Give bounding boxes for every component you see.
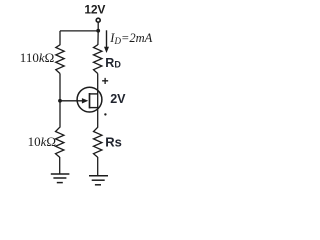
label 2V: [110, 92, 126, 106]
svg-text:110kΩ: 110kΩ: [20, 50, 54, 65]
resistor RD: [94, 45, 102, 74]
resistor 110k: [56, 45, 64, 74]
transistor Q1 body circle: [77, 87, 102, 112]
label 12V supply: [84, 3, 105, 17]
svg-text:12V: 12V: [84, 3, 105, 17]
wire left rail middle: [59, 74, 61, 128]
value label 10kOhm: [28, 134, 56, 149]
label minus dot: [104, 113, 106, 115]
value label 110kOhm: [20, 50, 54, 65]
transistor Q1 gate arrowhead: [82, 98, 88, 103]
wire left rail top: [59, 31, 61, 45]
label ID=2mA: [109, 31, 152, 46]
wire gate: [60, 100, 83, 102]
wire right rail from junction to RD: [97, 31, 99, 45]
ground right: [89, 176, 108, 185]
node top junction: [96, 29, 100, 33]
wire terminal to junction: [97, 22, 99, 30]
transistor Q1 source stub: [90, 107, 98, 109]
svg-text:+: +: [102, 74, 109, 88]
transistor Q1 drain stub: [90, 93, 98, 95]
resistor RS: [94, 127, 102, 157]
node gate junction: [58, 99, 62, 103]
transistor Q1 gate bar: [89, 93, 91, 108]
wire 10k to ground: [59, 157, 61, 174]
label Rs: [105, 135, 122, 150]
terminal 12V: [96, 18, 100, 22]
svg-text:Rs: Rs: [105, 135, 122, 150]
wire drain-source channel vertical: [97, 74, 99, 128]
wire RS to ground: [97, 157, 99, 176]
wire top horizontal: [60, 30, 98, 32]
label RD: [105, 56, 121, 70]
ground left: [51, 174, 70, 183]
svg-text:2V: 2V: [110, 92, 126, 106]
current arrow ID: [104, 30, 109, 53]
resistor 10k: [56, 127, 64, 157]
svg-text:10kΩ: 10kΩ: [28, 134, 56, 149]
label plus sign: [102, 74, 109, 88]
